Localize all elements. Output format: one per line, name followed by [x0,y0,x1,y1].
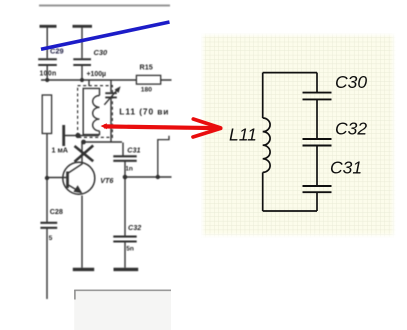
top rail stub bar (left) [40,25,57,28]
top rail stub bar (right) [73,25,93,28]
svg-text:L11: L11 [229,125,257,145]
ground bar under C32 [114,268,139,271]
node junction dot output [156,175,160,179]
svg-text:C32: C32 [335,118,367,138]
wire C31 top stub [122,143,124,156]
left rail wire lower [46,134,48,300]
capacitor C32 plates [303,139,332,146]
capacitor C29 bottom wire [46,66,48,80]
wire output net [125,176,172,178]
transistor VT6 collector [68,143,83,174]
node junction dot C31 [123,175,128,180]
wire right segment 2 [316,100,318,139]
ground bar under emitter [73,268,94,271]
capacitor C30 plates [73,59,91,65]
capacitor C29 top wire [46,28,48,59]
svg-text:C28: C28 [50,207,63,216]
wire base [47,177,67,179]
svg-text:C30: C30 [335,72,367,92]
wire C31 to node [124,162,126,178]
capacitor C30 bottom wire [81,66,83,80]
capacitor C30 top wire [81,28,83,59]
svg-text:C31: C31 [127,145,140,154]
supply rail wire [41,79,172,81]
scan text labels [40,47,170,253]
svg-text:C30: C30 [94,48,108,57]
wire corner bracket [158,136,169,177]
wire top [263,72,317,74]
svg-text:C32: C32 [128,223,141,232]
node junction dot coil bottom [75,133,80,138]
trimmer capacitor top wire [110,80,112,92]
svg-text:L11 (70 ви: L11 (70 ви [119,107,169,117]
graph paper background [201,33,396,237]
node junction dot left [45,78,49,82]
wire collector net [84,141,123,143]
capacitor tap plate bar [62,125,65,146]
wire right segment 3 [316,146,318,186]
node junction dot right [80,78,84,82]
resistor R15 body [136,75,160,84]
wire coil bottom [64,135,99,137]
node junction dot base [45,176,49,180]
wire rail to coil [88,80,90,86]
blue annotation line [41,22,170,49]
wire C32 to ground [124,242,126,268]
red arrow upper barb [193,119,220,128]
wire right segment 4 [316,193,318,211]
wire left upper [262,73,264,118]
svg-text:+100µ: +100µ [87,71,107,78]
trimmer capacitor plates [105,93,117,97]
inductor L11 (scan) core and winding [83,88,99,134]
capacitor C28 plates [40,223,57,228]
trimmer capacitor bottom wire [110,98,112,142]
inductor L11 winding [263,118,270,172]
red arrow lower barb [193,128,221,137]
capacitor C30 plates [303,93,332,100]
red arrow tail tip [101,123,107,129]
transistor VT6 base bar [66,172,69,189]
node junction dot collector net [81,140,86,145]
transistor VT6 emitter [68,185,82,193]
svg-text:C31: C31 [330,157,362,177]
svg-text:VT6: VT6 [100,176,114,185]
wire left lower [262,172,264,211]
svg-text:5: 5 [49,235,53,242]
red arrow shaft [104,126,220,128]
capacitor C31 plates (scan) [113,156,136,161]
svg-text:1n: 1n [125,165,133,172]
capacitor C32 plates (scan) [113,237,136,242]
svg-text:1 мА: 1 мА [52,146,69,155]
red arrow [101,119,221,137]
svg-text:R15: R15 [140,63,153,72]
capacitor C31 plates [303,186,332,192]
transistor VT6 circle [63,162,95,194]
resistor R14 body (left, unlabeled) [42,95,51,134]
svg-text:180: 180 [141,86,152,93]
bottom block left border [74,290,76,300]
transistor VT6 emitter arrow [73,185,82,193]
dashed box around L11 [78,86,113,138]
wire C32 top [124,177,126,236]
bottom block top border [74,289,171,291]
capacitor C29 plates [38,59,57,65]
X cancel mark [75,146,94,162]
wire right segment 1 [316,73,318,92]
wire emitter down [81,196,83,268]
svg-text:100n: 100n [40,71,57,78]
trimmer arrow [104,90,117,105]
bottom block fill [74,291,171,330]
svg-text:5n: 5n [126,246,134,253]
top border grey line [39,5,170,7]
wire bottom [263,210,317,212]
